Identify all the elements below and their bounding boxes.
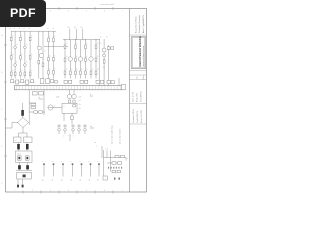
svg-text:Norm DIN 40: Norm DIN 40 [141,92,143,102]
svg-text:c b: c b [94,142,96,144]
capacitor C14 [96,80,99,83]
note text column 2 [119,128,122,144]
title block divider mid1 [129,71,146,80]
transistor Q9 [58,125,61,134]
terminal strip end block [122,84,126,90]
output stage box U1 [62,103,77,113]
resistor R12 [53,38,55,42]
capacitor C17 [111,81,114,84]
test point TP3 [61,161,64,182]
tube V8 driver [72,90,76,99]
resistor R2 [19,37,21,41]
capacitor C15 [101,80,104,83]
zone letters left border [2,34,3,185]
svg-text:schematic.pdf: schematic.pdf [100,3,114,6]
junction dots rail 2 [65,39,97,40]
filename text above frame [100,3,114,6]
svg-text:b2: b2 [68,27,70,29]
tube V4 [89,57,93,61]
transistor Q11 [72,125,75,134]
capacitor C20 [107,47,110,50]
tube V7 driver [67,90,71,99]
capacitor C3 [21,80,24,83]
svg-text:b2: b2 [81,27,83,29]
capacitor C11 electrolytic [18,165,21,169]
resistor R24 [85,71,87,75]
resistor R38 [103,60,105,63]
zone tick marks top border [23,7,113,10]
capacitor C30 filter [21,103,24,116]
resistor R19 [95,58,97,61]
svg-text:Typ A 1000 CS: Typ A 1000 CS [136,110,139,123]
resistor R45 [71,116,74,120]
resistor R14 [85,45,87,49]
capacitor C12 [80,80,83,83]
resistor R26 [95,71,97,75]
resistor R1 [10,37,12,41]
wire control bus vertical [103,150,105,176]
node labels m a [106,149,111,158]
wire vertical net L2 [14,31,16,78]
mains switch box S1 [17,172,32,179]
node labels pair chains [47,28,54,30]
svg-text:d: d [90,94,91,96]
svg-text:D: D [2,146,3,148]
node stub left t-d [90,125,94,128]
resistor R54 [112,170,116,172]
capacitor C10 [64,80,67,83]
resistor R4 [10,56,12,59]
title block divider line [128,9,130,193]
svg-text:(2) nur bei netzteil: (2) nur bei netzteil [119,128,122,144]
transistor Q21 [102,48,106,52]
resistor R6 [29,56,31,59]
resistor R50 [115,155,119,157]
wire stage output tail [70,134,97,148]
test point TP4 [71,161,74,182]
test point TP1 [42,161,45,182]
wire bus drop mid-left [28,90,30,125]
logo box [131,36,146,68]
node stubs above rail 2 [68,27,83,40]
resistor R16 [53,71,55,75]
svg-text:d1: d1 [80,180,82,182]
svg-text:C: C [2,109,3,111]
svg-text:GERATEBAU WERKE: GERATEBAU WERKE [138,36,142,67]
label right of control row [127,158,128,160]
terminal row ticks [108,167,122,169]
wire vertical net L7 [42,31,44,78]
svg-text:d1: d1 [52,180,54,182]
wire vertical net M1 [64,40,66,79]
capacitor C5 [31,80,34,83]
svg-text:d1: d1 [97,180,99,182]
resistor R9 [19,72,21,76]
svg-text:a1: a1 [23,28,25,30]
svg-text:a1: a1 [29,28,31,30]
title block text upper [135,14,145,33]
svg-text:E: E [2,183,3,185]
wire vertical net N4 [118,78,120,86]
wire mid-left row [29,103,45,112]
node label AB below bar [57,96,59,99]
capacitor C2 [16,80,19,84]
node labels right group [100,37,108,39]
svg-text:Gepr. 4.7.69: Gepr. 4.7.69 [133,92,135,102]
resistor R5 [19,56,21,59]
wire control row 1 [104,158,127,161]
svg-text:Ausg. Datum Name: Ausg. Datum Name [135,17,138,34]
wire vertical net N1 [98,39,100,86]
resistor R12 [64,45,66,49]
wire vertical net L9 [52,31,54,78]
node stub left d [90,94,93,96]
transistor Q10 [64,125,67,134]
resistor R16 [64,58,66,61]
resistor R15 [48,71,50,75]
wire control row 2 [107,158,122,172]
svg-text:a7: a7 [52,28,54,30]
capacitor C7 [46,79,50,84]
wire bus drop mid-left 2 [43,90,45,115]
wire vertical net L5 [29,31,31,78]
resistor R3 [29,37,31,41]
rectifier bridge BR1 [18,116,29,128]
wire feed to control cluster [101,146,103,158]
wire vertical net L4 [24,31,26,78]
resistor R15 [95,45,97,49]
wire switch feet [18,179,23,185]
capacitor C13 [85,80,88,83]
zone numbers bottom [14,190,123,192]
wire supply rail 2 [63,39,100,41]
svg-text:electronic Bauelemente: electronic Bauelemente [142,45,145,67]
bottom right stub marks [114,178,120,180]
wire vertical net N3 [108,45,110,86]
svg-text:Verstarker 100 W: Verstarker 100 W [132,109,135,123]
title block text lower [132,109,143,123]
svg-text:a1: a1 [10,28,12,30]
wire vertical net M3 [75,40,77,79]
svg-text:c1: c1 [100,37,102,39]
resistor R25 [90,71,92,75]
svg-text:c2: c2 [106,37,108,39]
resistor R55 [117,170,121,172]
resistor R11 [48,38,50,42]
transistor Q22 [103,54,106,57]
resistor R51 [121,155,125,157]
transistor Q4 [24,64,27,67]
svg-text:0,5: 0,5 [79,108,81,110]
svg-text:4 o: 4 o [79,104,81,106]
tube V1 [39,53,44,58]
svg-text:ec 8: ec 8 [79,97,82,99]
sheet border frame [6,9,147,193]
svg-text:B: B [2,72,3,74]
junction box bottom [103,176,108,180]
resistor R20 [64,71,66,75]
capacitor C21 [111,47,114,50]
resistor R14 [53,58,55,61]
title block divider mid2 [129,74,146,76]
terminal strip bus bar [15,86,125,90]
resistor R13 [48,58,50,61]
wire vertical net M2 [69,40,71,79]
resistor R53 [118,162,122,164]
svg-text:a6: a6 [47,28,49,30]
svg-text:Blatt 1 Typ A1000 CS: Blatt 1 Typ A1000 CS [142,14,145,33]
title block divider mid3 [129,79,146,81]
note text column 1 [111,125,114,144]
title block divider lower [129,123,146,125]
resistor R11 [29,72,31,76]
svg-text:Bearb. Mzk: Bearb. Mzk [137,93,139,102]
capacitor C12 electrolytic [26,165,29,169]
mains plug pin 1 [17,185,19,188]
resistor R42b [39,111,43,113]
labels beside box U1 [79,97,82,111]
wire below box 2 [71,113,73,124]
svg-text:b2: b2 [74,27,76,29]
fuse holder block F2 [24,137,33,143]
transistor Q1 [14,46,17,49]
svg-text:d1: d1 [89,180,91,182]
test point TP7 [97,161,100,182]
transformer box T2 [16,151,33,162]
emitter labels row [63,136,74,138]
meter M1 [48,105,56,110]
transistor Q2 [24,46,27,49]
resistor R44 [73,100,75,103]
wire rectifier to supply stack [19,128,28,138]
resistor R40 stack [31,103,36,108]
wire vertical net L6 [38,31,40,78]
title block divider upper [129,34,146,36]
fuse holder block F1 [14,137,22,143]
wire vertical net N2 [103,39,105,86]
value labels upper schematic [12,36,102,73]
svg-text:Zeichn. Nr. 5521: Zeichn. Nr. 5521 [141,110,143,123]
tube V2 [68,57,72,61]
resistor R10 [24,72,26,76]
capacitor C6 [40,79,44,84]
capacitor C9 electrolytic [17,144,20,149]
PDF badge [0,0,46,27]
wire vertical net M5 [85,40,87,79]
zone numbers top [14,11,123,13]
tube V3 [78,57,82,61]
wire above-bar left row [11,81,35,83]
wire vertical net L3 [19,31,21,78]
capacitor C4 [26,80,29,84]
svg-text:d1: d1 [61,180,63,182]
title block text mid [133,92,143,102]
wire meter to box [53,107,62,109]
capacitor C10 electrolytic [26,144,29,149]
wire vertical net L1 [10,31,12,78]
svg-text:Schaltplan Verstarker: Schaltplan Verstarker [138,15,141,33]
transistor Q12 [78,125,81,134]
transistor Q3 [14,64,17,67]
capacitor C8 [51,79,54,82]
resistor R7 [10,72,12,76]
svg-text:a1: a1 [14,28,16,30]
transistor Q5 [38,46,42,50]
resistor R17 [75,58,77,61]
svg-text:e4: e4 [38,97,40,99]
svg-text:Tag: Tag [137,76,139,79]
wire vertical net M7 [95,40,97,79]
capacitor C16 [107,81,110,84]
capacitor C11 [69,80,72,83]
resistor R22 [75,71,77,75]
wire below box 1 [63,113,65,121]
node marks top mid-left [38,97,43,99]
zone tick marks left border [4,45,7,156]
resistor R9 [38,61,40,64]
wire top supply rail left [11,30,56,32]
test point TP5 [80,161,83,182]
capacitor C9 [55,80,58,83]
connector block pins below bar [33,92,44,95]
zone tick marks bottom border [23,191,113,194]
resistor R8 [14,72,16,76]
wire cross link left [44,45,68,47]
svg-text:d1: d1 [71,180,73,182]
svg-text:m a: m a [106,149,109,151]
title block divider mid4 [129,103,146,105]
node labels above rail left [10,28,31,30]
wire vertical net M4 [80,40,82,79]
svg-text:d1: d1 [42,180,44,182]
resistor R23 [80,71,82,75]
test point TP2 [52,161,55,182]
test point TP6 [89,161,92,182]
mains plug pin 2 [22,185,24,188]
wire vertical net M6 [90,40,92,79]
wire rectifier to border [6,123,18,129]
svg-text:(1) nur bei ausfuhrung: (1) nur bei ausfuhrung [111,125,114,144]
svg-text:Name: Name [143,75,145,79]
resistor R10 [42,63,44,66]
resistor R21 [69,71,71,75]
wire supply vertical links [19,143,28,152]
svg-text:a1: a1 [19,28,21,30]
node label C [103,67,106,69]
wire supply bottom rail [16,162,32,170]
resistor R18 [85,58,87,61]
resistor R41 [34,111,38,113]
resistor R13 [75,45,77,49]
resistor R43 [68,100,70,103]
resistor R52 [112,162,116,164]
capacitor C1 [11,80,14,83]
transistor Q13 [84,125,87,134]
wire vertical net L8 [48,31,50,78]
